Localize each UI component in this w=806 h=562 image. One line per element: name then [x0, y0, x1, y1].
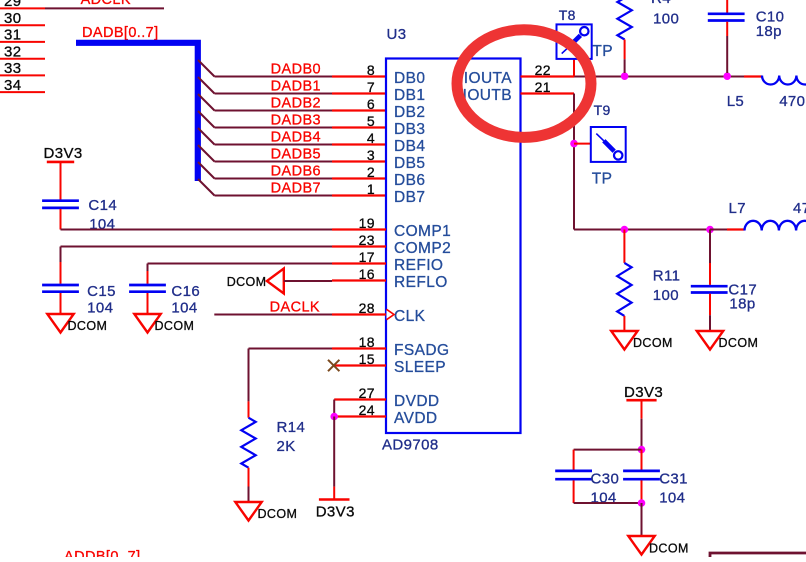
capacitor C15 [42, 285, 79, 292]
pin 16 REFLO [332, 266, 386, 282]
svg-text:REFIO: REFIO [394, 257, 443, 274]
ref L5 [727, 93, 745, 110]
junction R11 [621, 226, 629, 234]
pin 18 FSADG [332, 334, 386, 350]
net label DADB[0..7] [82, 25, 159, 41]
bus entry DADB4 [198, 128, 215, 145]
annotation red circle around IOUTA/IOUTB [457, 30, 591, 138]
svg-text:DADB1: DADB1 [271, 78, 321, 94]
connector pin 31 [0, 27, 45, 44]
wire DACLK [214, 314, 332, 316]
value 100 (R4) [653, 11, 679, 28]
svg-text:C31: C31 [659, 471, 688, 488]
value 470n (L7, clipped) [793, 200, 806, 217]
ref R4 (clipped) [651, 0, 671, 7]
svg-text:470n: 470n [779, 93, 806, 110]
connector pin 33 [0, 60, 45, 77]
ground DCOM (C17) [697, 331, 758, 350]
svg-text:4: 4 [367, 130, 375, 146]
svg-text:5: 5 [367, 113, 375, 129]
svg-text:100: 100 [653, 287, 679, 304]
net label DADB2 [271, 95, 321, 111]
inductor L5 [744, 76, 806, 85]
svg-text:COMP2: COMP2 [394, 240, 451, 257]
svg-text:C14: C14 [88, 197, 117, 214]
capacitor C30 [555, 471, 592, 479]
label TP (T8) [592, 43, 613, 60]
svg-text:34: 34 [4, 77, 22, 94]
bus entry DADB6 [198, 162, 215, 179]
ref C16 [171, 283, 200, 300]
wire DADB5 [215, 161, 333, 163]
svg-text:C30: C30 [591, 471, 620, 488]
svg-text:DADB3: DADB3 [271, 112, 321, 128]
wire DVDD to AVDD junction [333, 400, 335, 417]
wire DADB3 [215, 127, 333, 129]
ref R14 [277, 419, 306, 436]
svg-text:AVDD: AVDD [394, 410, 438, 427]
svg-text:DCOM: DCOM [227, 275, 267, 289]
svg-text:R11: R11 [653, 268, 681, 285]
svg-text:U3: U3 [387, 26, 407, 43]
ground DCOM (C16) [134, 314, 194, 333]
ref C31 [659, 471, 688, 488]
ground DCOM (R14) [235, 502, 297, 521]
svg-text:7: 7 [367, 79, 375, 95]
ref T9 [594, 102, 611, 118]
ref R11 [653, 268, 681, 285]
svg-text:23: 23 [359, 232, 375, 248]
ground DCOM (C15) [47, 314, 107, 333]
ground DCOM (C30/C31) [628, 536, 688, 556]
U3 pin names IOUTA IOUTB [463, 70, 513, 104]
connector pin 30 [0, 10, 45, 27]
svg-text:DB2: DB2 [394, 104, 425, 121]
wire COMP2 net [61, 247, 333, 284]
svg-text:32: 32 [4, 43, 22, 60]
wire C15 to ground [60, 293, 62, 314]
bus entry DADB2 [198, 94, 215, 111]
ref C30 [591, 471, 620, 488]
svg-text:DB6: DB6 [394, 172, 425, 189]
connector pin 34 [0, 77, 45, 94]
svg-text:DADB5: DADB5 [271, 146, 321, 162]
bus entry DADB3 [198, 111, 215, 128]
svg-text:104: 104 [87, 300, 113, 317]
wire junction to ground [641, 503, 643, 536]
wire DADB2 [215, 110, 333, 112]
pin 7 DB1 [332, 79, 386, 95]
pin 23 COMP2 [332, 232, 386, 248]
CLK input arrow [387, 309, 395, 319]
value 2K [277, 438, 296, 455]
value 104 (C31) [659, 489, 685, 506]
inductor L7 [710, 221, 806, 231]
ref U3 [387, 26, 407, 43]
capacitor C10 [708, 0, 745, 73]
pin 17 REFIO [332, 249, 386, 265]
wire C16 to ground [147, 293, 149, 314]
wire ADCLK [45, 7, 164, 9]
svg-text:DB4: DB4 [394, 138, 425, 155]
svg-text:104: 104 [171, 300, 197, 317]
svg-text:DADB7: DADB7 [271, 180, 321, 196]
svg-text:DB0: DB0 [394, 70, 425, 87]
wire D3V3 to C14 [60, 162, 62, 200]
value 100 (R11) [653, 287, 679, 304]
pin 27 DVDD [334, 385, 386, 401]
svg-text:DADB6: DADB6 [271, 163, 321, 179]
svg-text:DADB4: DADB4 [271, 129, 321, 145]
bus entry DADB0 [198, 60, 215, 77]
pin 1 DB7 [332, 181, 386, 197]
pin 3 DB5 [332, 147, 386, 163]
svg-text:R4: R4 [651, 0, 671, 7]
wire T9 stub [574, 143, 591, 145]
svg-text:R14: R14 [277, 419, 306, 436]
svg-text:DCOM: DCOM [258, 507, 298, 521]
value 18p (C17) [729, 296, 755, 313]
svg-text:TP: TP [592, 171, 613, 188]
net label DADB3 [271, 112, 321, 128]
wire C30 branch bottom [574, 480, 642, 503]
wire DADB7 [215, 195, 333, 197]
title block corner [710, 553, 806, 557]
svg-text:DB5: DB5 [394, 155, 425, 172]
svg-text:C15: C15 [87, 283, 116, 300]
svg-text:27: 27 [359, 385, 375, 401]
connector pin 29 [0, 0, 45, 10]
connector pin 32 [0, 43, 45, 60]
bus DADB[0..7] [76, 43, 198, 181]
value 104 (C15) [87, 300, 113, 317]
net label DADB7 [271, 180, 321, 196]
ref T8 [559, 7, 576, 23]
ref C17 [728, 282, 757, 299]
svg-text:19: 19 [359, 215, 375, 231]
svg-text:1: 1 [367, 181, 375, 197]
net label ADDB[0..7] (clipped at bottom) [64, 549, 141, 562]
wire DADB4 [215, 144, 333, 146]
net label DADB6 [271, 163, 321, 179]
svg-text:3: 3 [367, 147, 375, 163]
svg-text:SLEEP: SLEEP [394, 359, 446, 376]
wire junction to D3V3 [333, 417, 335, 500]
svg-text:DCOM: DCOM [719, 336, 759, 350]
IC U3 AD9708 body [386, 59, 521, 434]
net label ADCLK (clipped at top) [81, 0, 131, 8]
wire COMP1 net [61, 209, 333, 230]
svg-text:104: 104 [659, 489, 685, 506]
bus entry DADB1 [198, 77, 215, 94]
capacitor C16 [129, 285, 166, 292]
pin 8 DB0 [332, 62, 386, 78]
ref C14 [88, 197, 117, 214]
ref C10 [756, 9, 785, 26]
svg-text:17: 17 [359, 249, 375, 265]
svg-text:AD9708: AD9708 [382, 437, 439, 454]
svg-text:24: 24 [359, 402, 375, 418]
svg-text:TP: TP [592, 43, 613, 60]
svg-text:DVDD: DVDD [394, 393, 440, 410]
wire REFLO net [284, 280, 332, 282]
power D3V3 (C30/C31) [624, 384, 663, 401]
test point T8 [557, 24, 592, 59]
wire FSADG to R14 [249, 349, 333, 418]
value 104 (C30) [591, 489, 617, 506]
pin 19 COMP1 [332, 215, 386, 231]
svg-text:31: 31 [4, 27, 22, 44]
value 104 (C14) [89, 216, 115, 233]
power D3V3 (U3 supply, bar down) [316, 500, 355, 521]
svg-text:DB3: DB3 [394, 121, 425, 138]
junction T9 [570, 140, 578, 148]
svg-text:T8: T8 [559, 7, 576, 23]
resistor R14 [241, 418, 255, 468]
test point T9 [591, 127, 626, 162]
svg-text:100: 100 [653, 11, 679, 28]
net label DACLK [270, 299, 320, 315]
svg-text:2: 2 [367, 164, 375, 180]
junction C30/C31 top [638, 446, 646, 454]
svg-text:L5: L5 [727, 93, 745, 110]
resistor R4 [617, 0, 631, 73]
svg-text:18p: 18p [756, 23, 782, 40]
capacitor C14 [42, 201, 79, 208]
svg-text:DADB0: DADB0 [271, 61, 321, 77]
svg-text:DACLK: DACLK [270, 299, 320, 315]
value 104 (C16) [171, 300, 197, 317]
svg-text:CLK: CLK [394, 308, 426, 325]
junction AVDD/D3V3 [330, 413, 338, 421]
bus entry DADB7 [198, 179, 215, 196]
svg-text:FSADG: FSADG [394, 342, 449, 359]
ground DCOM (REFLO) [227, 269, 284, 294]
svg-text:DB1: DB1 [394, 87, 425, 104]
svg-text:C16: C16 [171, 283, 200, 300]
U3 pin names left column [394, 70, 451, 427]
svg-text:8: 8 [367, 62, 375, 78]
value 470n (L5) [779, 93, 806, 110]
svg-text:21: 21 [535, 79, 551, 95]
svg-text:29: 29 [4, 0, 22, 10]
pin 21 IOUTB [521, 79, 575, 95]
svg-text:ADCLK: ADCLK [81, 0, 131, 8]
wire IOUTB net [574, 94, 710, 230]
svg-text:16: 16 [359, 266, 375, 282]
pin 2 DB6 [332, 164, 386, 180]
junction C30/C31 bottom [638, 499, 646, 507]
wire T8 to IOUTA [573, 59, 575, 77]
wire C30 branch top [574, 450, 642, 470]
wire DADB1 [215, 93, 333, 95]
svg-text:15: 15 [359, 351, 375, 367]
pin 5 DB3 [332, 113, 386, 129]
label TP (T9) [592, 171, 613, 188]
ref L7 [729, 200, 747, 217]
value 18p (C10) [756, 23, 782, 40]
svg-text:DCOM: DCOM [649, 542, 689, 556]
svg-text:D3V3: D3V3 [624, 384, 663, 401]
svg-text:DADB2: DADB2 [271, 95, 321, 111]
pin 15 SLEEP [334, 351, 386, 367]
bus entry DADB5 [198, 145, 215, 162]
wire DADB6 [215, 178, 333, 180]
svg-text:L7: L7 [729, 200, 747, 217]
pin 28 CLK [332, 300, 386, 316]
svg-text:22: 22 [535, 62, 551, 78]
junction R4/IOUTA [621, 72, 629, 80]
svg-text:IOUTB: IOUTB [463, 87, 512, 104]
capacitor C31 [623, 450, 660, 503]
net label DADB1 [271, 78, 321, 94]
svg-text:T9: T9 [594, 102, 611, 118]
junction C17 [706, 226, 714, 234]
svg-text:18p: 18p [729, 296, 755, 313]
net label DADB4 [271, 129, 321, 145]
svg-text:DCOM: DCOM [633, 336, 673, 350]
svg-text:28: 28 [359, 300, 375, 316]
wire D3V3 to junction [641, 400, 643, 449]
svg-text:REFLO: REFLO [394, 274, 448, 291]
wire R14 to ground [248, 468, 250, 502]
svg-text:IOUTA: IOUTA [464, 70, 512, 87]
svg-text:DCOM: DCOM [155, 319, 195, 333]
ground DCOM (R11) [611, 331, 673, 350]
pin 6 DB2 [332, 96, 386, 112]
svg-text:2K: 2K [277, 438, 296, 455]
svg-text:DCOM: DCOM [68, 319, 108, 333]
wire IOUTA net [574, 76, 744, 78]
wire REFIO net [148, 264, 333, 284]
ref C15 [87, 283, 116, 300]
svg-text:DB7: DB7 [394, 189, 425, 206]
pin 24 AVDD [334, 402, 386, 418]
resistor R11 [617, 230, 631, 332]
svg-text:ADDB[0..7]: ADDB[0..7] [64, 549, 141, 557]
power D3V3 (C14) [44, 145, 83, 162]
svg-text:33: 33 [4, 60, 22, 77]
value AD9708 [382, 437, 439, 454]
pin 4 DB4 [332, 130, 386, 146]
no-connect X (SLEEP) [328, 360, 339, 371]
svg-text:18: 18 [359, 334, 375, 350]
svg-text:DADB[0..7]: DADB[0..7] [82, 25, 159, 41]
svg-text:D3V3: D3V3 [316, 504, 355, 521]
svg-text:30: 30 [4, 10, 22, 27]
junction C10/L5 [723, 72, 731, 80]
pin 22 IOUTA [521, 62, 575, 78]
net label DADB5 [271, 146, 321, 162]
capacitor C17 [691, 230, 728, 332]
net label DADB0 [271, 61, 321, 77]
svg-text:D3V3: D3V3 [44, 145, 83, 162]
svg-text:6: 6 [367, 96, 375, 112]
svg-text:470n: 470n [793, 200, 806, 217]
wire DADB0 [215, 76, 333, 78]
svg-text:COMP1: COMP1 [394, 223, 451, 240]
